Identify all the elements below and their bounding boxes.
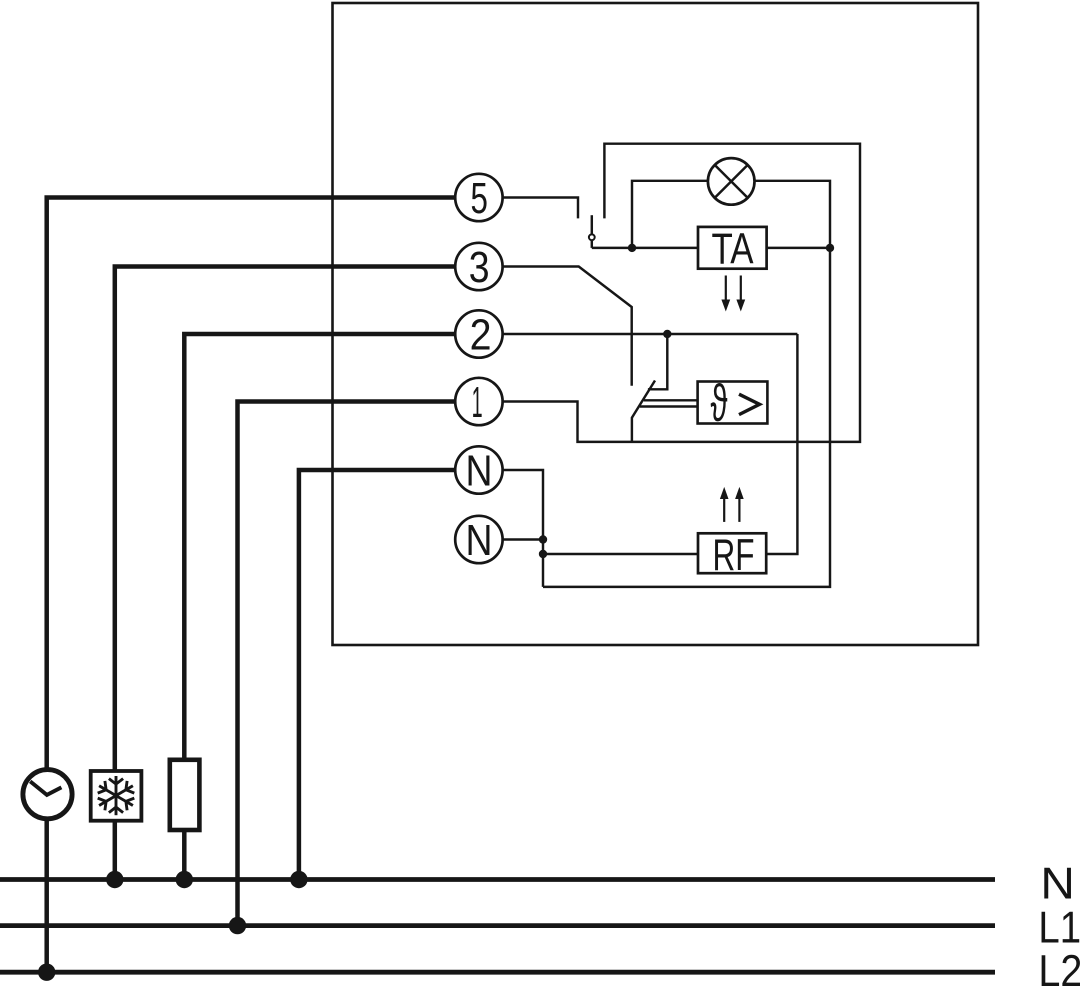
svg-text:L2: L2 bbox=[1038, 947, 1080, 996]
wire clock to L2 bus bbox=[44, 819, 49, 972]
wire lamp branch left bbox=[632, 181, 708, 248]
resistor (load) symbol bbox=[170, 760, 200, 830]
svg-text:1: 1 bbox=[472, 378, 483, 427]
svg-text:ϑ: ϑ bbox=[711, 373, 728, 431]
wire RF right to terminal 2 line bbox=[767, 334, 798, 554]
TA signal arrows bbox=[721, 276, 745, 312]
svg-text:3: 3 bbox=[469, 243, 490, 292]
wire terminal 2 branch to contact bbox=[648, 334, 667, 389]
frost thermostat snowflake symbol bbox=[91, 771, 142, 821]
junction dot node B (TA/lamp) bbox=[826, 244, 834, 252]
wire terminal 1 to L1 bus bbox=[238, 402, 456, 926]
time switch clock symbol bbox=[23, 770, 72, 819]
N bus line bbox=[0, 877, 995, 882]
junction dot N1/N2 bbox=[539, 535, 547, 543]
mechanical link upper bbox=[644, 399, 698, 401]
wire terminal 5 to switch contact bbox=[503, 198, 578, 219]
wire resistor to N bus bbox=[182, 830, 187, 880]
svg-text:N: N bbox=[466, 447, 493, 496]
wire N to RF left bbox=[543, 553, 698, 555]
wire frost thermostat to N bus bbox=[113, 821, 118, 880]
wire top loop (switch contact to terminal 1 line) bbox=[503, 144, 860, 442]
svg-text:N: N bbox=[1040, 859, 1075, 908]
RF box (radio receiver module) bbox=[698, 533, 766, 573]
thermostat contact blade bbox=[632, 381, 655, 442]
wire terminal 3 to contact bbox=[503, 267, 632, 386]
junction dot L1/terminal1 bbox=[229, 917, 246, 934]
junction dot terminal 2 branch bbox=[663, 330, 671, 338]
junction dot N/frost bbox=[106, 871, 123, 888]
svg-text:RF: RF bbox=[713, 531, 755, 580]
RF signal arrows bbox=[720, 487, 744, 522]
mechanical link lower bbox=[640, 405, 698, 407]
thermostat symbol ϑ> bbox=[711, 373, 760, 431]
wire TA to node B bbox=[767, 247, 830, 249]
svg-text:5: 5 bbox=[471, 174, 488, 223]
wire terminal N1 down bbox=[503, 470, 543, 587]
svg-text:TA: TA bbox=[712, 226, 754, 274]
wire terminal 2 bbox=[503, 333, 798, 335]
wire terminal 5 to clock (L2 feed) bbox=[47, 198, 456, 770]
wire terminal 3 to frost thermostat bbox=[115, 267, 456, 772]
terminal N2 bbox=[455, 516, 502, 565]
TA box (push button module) bbox=[698, 227, 767, 269]
svg-text:L1: L1 bbox=[1038, 903, 1080, 952]
junction dot N/resistor bbox=[176, 871, 193, 888]
junction dot L2/clock bbox=[38, 964, 55, 981]
svg-text:2: 2 bbox=[470, 311, 492, 360]
junction dot N/terminalN bbox=[290, 871, 307, 888]
wire terminal 2 to resistor bbox=[184, 334, 455, 760]
terminal 5 bbox=[455, 174, 502, 223]
wire lamp branch right / lamp return to N bbox=[543, 181, 830, 587]
junction dot node A (switch/TA) bbox=[628, 244, 636, 252]
device outline box bbox=[333, 3, 979, 645]
wire switch pivot down bbox=[591, 241, 593, 248]
terminal N1 bbox=[455, 446, 502, 495]
terminal 2 bbox=[455, 310, 502, 359]
L2 bus line bbox=[0, 970, 995, 975]
switch S1 blade bbox=[591, 215, 593, 234]
lamp E1 symbol bbox=[708, 158, 755, 205]
junction dot N/RF bbox=[539, 550, 547, 558]
svg-text:N: N bbox=[466, 516, 493, 565]
terminal 1 bbox=[455, 378, 502, 427]
L1 bus line bbox=[0, 923, 995, 928]
wire terminal N to N bus bbox=[299, 470, 456, 880]
wire terminal N2 bbox=[503, 538, 543, 540]
switch S1 pivot bbox=[589, 234, 595, 240]
wire switch to TA bbox=[592, 247, 698, 249]
thermostat box bbox=[698, 382, 768, 424]
terminal 3 bbox=[455, 243, 502, 292]
